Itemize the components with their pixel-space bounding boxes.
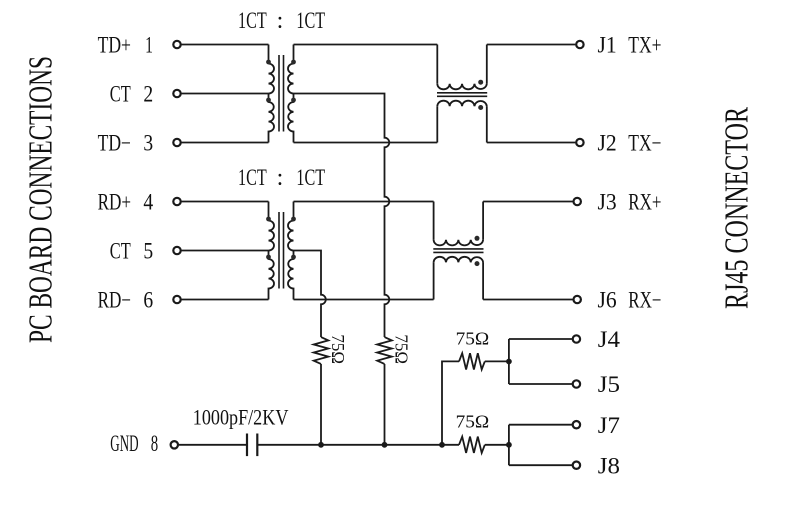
transformer T1 core <box>279 55 284 132</box>
svg-text:CT: CT <box>110 239 131 264</box>
wire to pin J8 <box>509 464 572 466</box>
wire to pin J7 <box>509 424 572 426</box>
svg-text::: : <box>277 165 284 191</box>
svg-text:RD−: RD− <box>98 288 131 313</box>
wire choke L1 to pin J1 <box>487 44 576 46</box>
pin J1 TX+ <box>576 33 661 58</box>
svg-text:J7: J7 <box>598 413 620 438</box>
wire pin2 to T1 primary center tap <box>182 93 269 95</box>
choke L1 core <box>437 93 487 97</box>
side label: PC BOARD CONNECTIONS <box>23 56 60 343</box>
choke L1 lower polarity dot <box>478 105 483 110</box>
pin CT 5 <box>110 239 181 264</box>
wire T1 secondary bottom to choke L1 <box>294 142 438 144</box>
wire choke L2 to pin J6 <box>483 299 573 301</box>
svg-text:TX+: TX+ <box>628 33 661 58</box>
choke L2 upper polarity dot <box>475 236 480 241</box>
wire choke L2 to pin J3 <box>483 201 573 203</box>
svg-text:75Ω: 75Ω <box>328 334 348 364</box>
svg-text:J8: J8 <box>598 453 620 478</box>
svg-text:J4: J4 <box>598 327 621 352</box>
pin J3 RX+ <box>574 190 662 215</box>
choke L2 lower winding <box>434 257 484 300</box>
wire T2 secondary bottom to choke L2 <box>294 299 434 301</box>
side label: RJ45 CONNECTOR <box>719 107 756 309</box>
svg-text:1CT: 1CT <box>296 165 325 190</box>
wire pin4 to T2 primary top <box>182 201 269 203</box>
svg-text:75Ω: 75Ω <box>391 334 411 364</box>
wire T1 secondary CT down to resistor R2 (with hops) <box>294 94 390 338</box>
pin RD+ 4 <box>98 190 181 215</box>
choke L2 core <box>433 249 483 253</box>
svg-text:PC BOARD CONNECTIONS: PC BOARD CONNECTIONS <box>23 56 60 343</box>
wire R1 to ground bus <box>320 364 322 445</box>
svg-text:J3: J3 <box>598 190 617 215</box>
pin J7 <box>573 413 620 438</box>
transformer T2 primary winding <box>269 202 275 300</box>
T2 secondary polarity dot lower <box>291 255 296 260</box>
capacitor C1 1000pF/2KV plates <box>247 434 257 457</box>
svg-text:TD−: TD− <box>98 131 131 156</box>
wire choke L1 to pin J2 <box>487 142 576 144</box>
svg-text:1CT: 1CT <box>238 8 267 33</box>
wire capacitor C1 to ground bus <box>257 444 442 446</box>
wire pin1 to T1 primary top <box>182 44 269 46</box>
svg-text:6: 6 <box>143 288 153 313</box>
svg-text:J6: J6 <box>598 288 617 313</box>
svg-text:3: 3 <box>143 131 153 156</box>
choke L2 upper winding <box>434 202 484 246</box>
label: 1CT : 1CT (transformer T1 ratio) <box>238 8 325 34</box>
svg-text:TD+: TD+ <box>98 33 131 58</box>
wire to pin J5 <box>509 383 572 385</box>
wire to pin J4 <box>509 338 572 340</box>
svg-text:RD+: RD+ <box>98 190 131 215</box>
pin J5 <box>573 372 620 397</box>
choke L1 upper winding <box>437 45 487 90</box>
svg-text:RX−: RX− <box>628 288 661 313</box>
wire pin3 to T1 primary bottom <box>182 142 269 144</box>
junction dot J7/J8 <box>506 442 512 448</box>
junction dot bus at R3 branch <box>439 442 445 448</box>
junction dot J4/J5 <box>506 359 512 365</box>
wire pin6 to T2 primary bottom <box>182 299 269 301</box>
T1 primary polarity dot lower <box>266 98 271 103</box>
T2 primary polarity dot lower <box>266 255 271 260</box>
svg-text::: : <box>277 8 284 34</box>
wire R3 to J4/J5 junction <box>485 360 509 362</box>
transformer T1 primary winding <box>269 45 275 143</box>
svg-text:J5: J5 <box>598 372 620 397</box>
pin J8 <box>573 453 620 478</box>
pin TD+ 1 <box>98 33 181 58</box>
svg-text:TX−: TX− <box>628 131 661 156</box>
resistor R2 75ohm (vertical, from T1 CT) <box>377 337 392 364</box>
junction dot bus at R2 <box>382 442 388 448</box>
wire J7/J8 tie bar <box>508 425 510 466</box>
wire pin8 to capacitor C1 <box>179 444 247 446</box>
label: 1CT : 1CT (transformer T2 ratio) <box>238 165 325 191</box>
svg-text:8: 8 <box>151 431 158 456</box>
pin J2 TX- <box>576 131 661 156</box>
pin J6 RX- <box>574 288 662 313</box>
wire R4 to J7/J8 junction <box>485 444 509 446</box>
wire bus riser to resistor R3 <box>442 361 459 444</box>
resistor R1 75ohm (vertical, from T2 CT) <box>314 337 329 364</box>
choke L1 lower winding <box>437 101 487 143</box>
wire pin5 to T2 primary center tap <box>182 250 269 252</box>
svg-text:1CT: 1CT <box>238 165 267 190</box>
svg-text:J2: J2 <box>598 131 617 156</box>
svg-text:1: 1 <box>145 33 153 58</box>
wire T2 secondary top to choke L2 <box>294 201 434 203</box>
choke L2 lower polarity dot <box>475 261 480 266</box>
T1 primary polarity dot upper <box>266 60 271 65</box>
svg-text:75Ω: 75Ω <box>456 411 490 431</box>
svg-text:1CT: 1CT <box>296 8 325 33</box>
resistor R4 75ohm (horizontal, on ground bus, J7/J8 termination) <box>442 437 485 453</box>
pin TD- 3 <box>98 131 181 156</box>
svg-text:CT: CT <box>110 82 131 107</box>
transformer T2 secondary winding <box>288 202 294 300</box>
T2 secondary polarity dot upper <box>291 217 296 222</box>
resistor R3 75ohm (horizontal, J4/J5 termination) <box>459 353 485 369</box>
wire R2 to ground bus <box>384 364 386 445</box>
pin CT 2 <box>110 82 181 107</box>
pin J4 <box>573 327 621 352</box>
pin RD- 6 <box>98 288 181 313</box>
svg-text:RJ45 CONNECTOR: RJ45 CONNECTOR <box>719 107 756 309</box>
svg-text:2: 2 <box>143 82 153 107</box>
T2 primary polarity dot upper <box>266 217 271 222</box>
svg-text:5: 5 <box>143 239 153 264</box>
svg-text:J1: J1 <box>598 33 617 58</box>
svg-text:GND: GND <box>110 431 138 456</box>
wire T2 secondary CT down to resistor R1 (with hop) <box>294 251 326 338</box>
svg-text:1000pF/2KV: 1000pF/2KV <box>193 405 289 430</box>
wire T1 secondary top to choke L1 <box>294 44 438 46</box>
pin GND 8 <box>110 431 178 456</box>
transformer T2 core <box>279 212 284 289</box>
junction dot bus at R1 <box>318 442 324 448</box>
wire J4/J5 tie bar <box>508 339 510 384</box>
svg-text:RX+: RX+ <box>628 190 661 215</box>
T1 secondary polarity dot upper <box>291 60 296 65</box>
T1 secondary polarity dot lower <box>291 98 296 103</box>
transformer T1 secondary winding <box>288 45 294 143</box>
svg-text:4: 4 <box>143 190 153 215</box>
svg-text:75Ω: 75Ω <box>456 328 490 348</box>
choke L1 upper polarity dot <box>478 80 483 85</box>
